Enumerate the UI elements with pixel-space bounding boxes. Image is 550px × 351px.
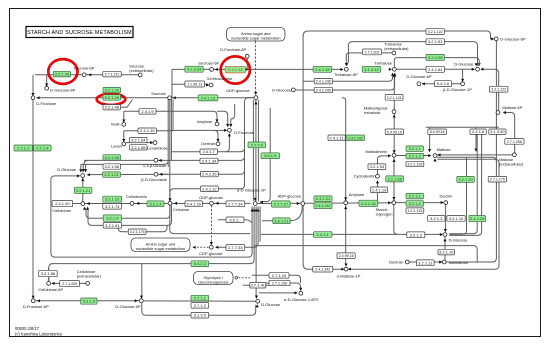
arrow into trehalose-6P xyxy=(340,68,343,71)
svg-text:D-Glucose-6P: D-Glucose-6P xyxy=(406,74,431,79)
arrow into dextrin xyxy=(441,201,444,204)
svg-text:2.4.1.11: 2.4.1.11 xyxy=(330,135,345,140)
enzyme 2.4.1.10 xyxy=(138,128,157,133)
enzyme 3.2.1.3 (dextrin) xyxy=(428,216,446,222)
enzyme 3.1.3.12 xyxy=(362,66,381,72)
wire 2.4.1.4 row xyxy=(172,111,217,121)
wire D-glucose2 to isomaltose xyxy=(444,237,446,260)
map link Amino sugar metabolism (top) xyxy=(227,28,286,42)
svg-text:2.4.1.64: 2.4.1.64 xyxy=(428,67,443,72)
arrow into D-glucose left xyxy=(87,173,90,176)
wire cellulose row y203.4 xyxy=(53,202,251,204)
arrow D-fructose mid a xyxy=(226,124,229,127)
svg-text:D-Glucose: D-Glucose xyxy=(272,87,292,92)
map link Glycolysis Gluconeogenesis xyxy=(194,272,234,285)
enzyme 1.1.99.13 xyxy=(185,81,205,87)
svg-text:3.2.1.64: 3.2.1.64 xyxy=(131,138,146,143)
wire cellobiose-6P up xyxy=(48,267,50,281)
svg-text:3.6.1.9: 3.6.1.9 xyxy=(264,153,277,158)
svg-text:2.4.1.245: 2.4.1.245 xyxy=(316,88,331,92)
enzyme 2.7.1.2 xyxy=(191,303,209,309)
arrow down into G1P xyxy=(254,198,257,201)
arrow into sucrose-6P right xyxy=(215,68,218,71)
wire y127.2 horizontal xyxy=(426,126,499,128)
enzyme 2.4.1.20 (cellobiose) xyxy=(52,201,73,207)
arrow into D-glucose bottom xyxy=(255,296,258,299)
svg-text:2.4.1.15: 2.4.1.15 xyxy=(315,67,330,72)
svg-text:3.2.1.122: 3.2.1.122 xyxy=(428,30,443,34)
enzyme 3.2.1.74 xyxy=(103,204,122,210)
svg-text:2.7.7.34: 2.7.7.34 xyxy=(228,201,243,206)
enzyme 2.4.1.9 xyxy=(139,109,156,114)
node cellodextrin xyxy=(130,202,134,206)
node beta-D-glucoside xyxy=(154,172,158,176)
svg-text:3.6.1.-: 3.6.1.- xyxy=(229,217,241,222)
enzyme 3.2.1.65 xyxy=(130,145,147,150)
arrow into trehalose bottom b xyxy=(393,73,396,76)
enzyme 2.7.1.175 xyxy=(488,176,506,182)
node D-glucose-6P right xyxy=(494,37,498,41)
arrow into 1,3-b-glucan xyxy=(159,159,162,162)
wire 2.7.7.33 row xyxy=(216,246,250,248)
svg-text:β-D-Glucose-1P: β-D-Glucose-1P xyxy=(443,87,472,92)
svg-text:Isomaltose: Isomaltose xyxy=(449,260,469,265)
svg-text:2.7.7.27: 2.7.7.27 xyxy=(274,201,289,206)
enzyme 5.4.99.15 xyxy=(385,129,403,135)
enzyme 2.7.7.34 xyxy=(226,201,245,207)
svg-text:5.4.99.16: 5.4.99.16 xyxy=(430,130,445,134)
svg-text:D-Glucose: D-Glucose xyxy=(449,238,469,243)
arrow into D-glucose right c xyxy=(472,68,475,71)
svg-text:α-Maltose-1P: α-Maltose-1P xyxy=(337,273,361,278)
arrow into D-fructose-6P xyxy=(32,296,35,299)
enzyme 2.4.1.35 xyxy=(201,171,219,176)
wire x476 drop xyxy=(475,127,477,151)
wire stub dglc a xyxy=(80,164,82,171)
arrow up into UDP-glucose xyxy=(254,101,257,104)
wire D-fructose-6P stub xyxy=(246,58,248,69)
wire sucrose bundle a xyxy=(167,99,169,167)
wire 2.7.1.10 row xyxy=(252,275,301,283)
svg-text:3.2.1.3: 3.2.1.3 xyxy=(410,232,423,237)
svg-text:Cellulose: Cellulose xyxy=(173,207,190,212)
arrow into cyclodextrin xyxy=(376,180,379,183)
arrow up into amylose xyxy=(344,206,347,209)
node amylose main xyxy=(344,201,348,205)
svg-text:3.2.1.21: 3.2.1.21 xyxy=(76,188,91,193)
arrow into starch xyxy=(388,201,391,204)
svg-text:3.2.1.176: 3.2.1.176 xyxy=(130,230,145,234)
svg-text:α-D-Glucose-1,6P2: α-D-Glucose-1,6P2 xyxy=(284,297,319,302)
wire cellulose lower path2 xyxy=(88,205,172,225)
arrow into maltodextrin from cyclodextrin xyxy=(388,154,391,157)
svg-text:3.2.1.58: 3.2.1.58 xyxy=(105,164,120,169)
enzyme 3.2.1.48 xyxy=(103,105,121,110)
arrow into sucrose xyxy=(173,96,176,99)
wire 2.4.1.245 row y90 xyxy=(296,73,395,90)
svg-text:2.4.1.34: 2.4.1.34 xyxy=(202,158,217,163)
arrow into maltose xyxy=(428,154,431,157)
wire 3.6.1.21 curve xyxy=(262,206,302,221)
wire 2.7.1.41 row xyxy=(243,284,270,286)
enzyme 2.4.1.18 xyxy=(359,200,378,206)
svg-text:2.4.1.9: 2.4.1.9 xyxy=(141,109,154,114)
svg-text:3.2.1.48: 3.2.1.48 xyxy=(105,105,120,110)
node cellobiose xyxy=(81,202,85,206)
enzyme 3.2.1.21 (glucan) xyxy=(103,172,121,177)
wire stub to b-D-glucose-1P xyxy=(462,69,464,81)
svg-text:3.2.1.65: 3.2.1.65 xyxy=(131,145,146,150)
wire into D-fructose mid a xyxy=(217,111,228,126)
wire 2.4.1.246 row y81.2 xyxy=(303,73,393,81)
arrow out of 2.4.1.14 right xyxy=(245,68,248,71)
wire amylose column x345.7 xyxy=(342,98,346,265)
svg-text:D-Glucose-6P: D-Glucose-6P xyxy=(115,304,140,309)
arrow bundle d up xyxy=(257,208,260,211)
svg-text:3.2.1.1: 3.2.1.1 xyxy=(409,194,422,199)
wire 2.4.1.25 column xyxy=(450,134,478,234)
enzyme 2.7.1.10 xyxy=(269,273,289,278)
arrow into D-glucose node2 xyxy=(444,229,447,232)
svg-text:3.2.1.26: 3.2.1.26 xyxy=(105,95,120,100)
wire 2.7.1.106 row xyxy=(252,283,301,289)
arrow into D-glucose from right xyxy=(480,68,483,71)
node dextrin xyxy=(444,201,448,205)
wire maltodextrin-starch column xyxy=(393,158,395,201)
enzyme 3.2.1.122 (maltose-6P) xyxy=(489,86,508,92)
wire cyclodextrin to maltodextrin via 3.2.1.54 xyxy=(378,156,391,175)
wire G1P bundle a xyxy=(51,176,252,257)
wire stub dglc c xyxy=(85,164,87,171)
svg-text:2.7.7.9: 2.7.7.9 xyxy=(251,142,264,147)
enzyme 3.2.1.10 (dextrin) xyxy=(447,216,465,222)
svg-text:α-D-Glucose-1P: α-D-Glucose-1P xyxy=(237,188,266,193)
enzyme 2.7.1.1 (fructose) xyxy=(14,145,33,151)
wire x496.4 long xyxy=(446,41,496,262)
wire PTS trehalose xyxy=(346,53,392,65)
svg-text:β-D-Glucoside: β-D-Glucoside xyxy=(141,177,167,182)
node alpha-D-glucose-1,6P2 xyxy=(299,291,303,295)
enzyme 3.1.3.24 xyxy=(185,66,203,72)
wire 1,3-b-glucan row y160.4 xyxy=(84,156,245,160)
svg-text:D-Fructose: D-Fructose xyxy=(234,130,255,135)
node trehalose xyxy=(392,67,396,71)
wire 3.6.1.9 column xyxy=(260,108,270,202)
svg-text:2.7.1.208: 2.7.1.208 xyxy=(507,140,522,144)
enzyme 3.2.1.11 (dextran) xyxy=(416,260,434,266)
wire corner to D-fructose xyxy=(32,75,34,96)
wire maltodextrin-maltose row xyxy=(396,155,431,157)
node D-fructose xyxy=(31,96,35,100)
svg-text:3.2.1.4: 3.2.1.4 xyxy=(106,216,119,221)
svg-text:3.2.1.4: 3.2.1.4 xyxy=(149,201,162,206)
enzyme 3.2.1.3 (starch) xyxy=(407,232,425,238)
svg-text:2.4.1.35: 2.4.1.35 xyxy=(202,172,217,177)
svg-text:D-Fructose: D-Fructose xyxy=(36,101,57,106)
wire dextrin down xyxy=(445,204,447,231)
wire G1P bundle e xyxy=(259,206,261,241)
node isomaltose xyxy=(442,260,446,264)
wire 3.2.1.20 column xyxy=(449,157,467,234)
arrow into ADP-glucose xyxy=(297,202,300,205)
enzyme 3.2.1.2 (maltose) xyxy=(406,153,424,159)
arrow up into D-glucose bottom xyxy=(256,304,259,307)
svg-text:3.2.1.21: 3.2.1.21 xyxy=(105,197,120,202)
node sucrose-6P left xyxy=(82,73,86,77)
wire sucrose bundle stub x172 xyxy=(171,69,173,97)
enzyme 2.4.1.14 highlighted xyxy=(225,66,245,73)
node maltodextrin xyxy=(392,153,396,157)
enzyme 2.4.1.64 xyxy=(426,66,445,72)
node maltose xyxy=(433,154,437,158)
node beta-D-glucose-1P xyxy=(461,82,465,86)
svg-text:3.2.1.39: 3.2.1.39 xyxy=(105,155,120,160)
wire maltose triple a xyxy=(437,154,512,156)
enzyme 2.4.1.15 xyxy=(313,66,332,72)
wire x429.6 drop xyxy=(429,127,431,151)
svg-text:Levan: Levan xyxy=(111,144,122,149)
enzyme 3.2.1.20 (sucrose) xyxy=(103,87,121,92)
svg-text:2.7.1.201: 2.7.1.201 xyxy=(365,50,380,54)
svg-text:2.4.1.242: 2.4.1.242 xyxy=(316,204,331,208)
arrow into D-glucose right a xyxy=(475,63,478,66)
enzyme 3.2.1.58 xyxy=(103,164,121,169)
node trehalose-6P xyxy=(344,67,348,71)
svg-text:D-Fructose-6P: D-Fructose-6P xyxy=(23,304,49,309)
arrow into cellodextrin xyxy=(136,202,139,205)
svg-text:2.4.1.242: 2.4.1.242 xyxy=(348,136,363,140)
svg-text:CDP-glucose: CDP-glucose xyxy=(199,251,223,256)
arrow into CDP-glucose xyxy=(210,242,213,245)
dashed aminosugar2 to CDP xyxy=(194,246,209,248)
arrow into CDP from right xyxy=(215,246,218,249)
wire G6P-DGlc row xyxy=(144,300,256,302)
svg-text:2.7.1.41: 2.7.1.41 xyxy=(251,283,266,288)
wire dextran2-isomaltose row xyxy=(409,261,442,263)
svg-text:Levanbiose: Levanbiose xyxy=(147,146,168,151)
wire sucrose-6P row y74.8 xyxy=(35,74,138,76)
arrow into trehalose-6P top xyxy=(345,63,348,66)
red highlight ellipse 2 (3.2.1.26 stack) xyxy=(97,94,126,105)
enzyme 5.4.2.2 xyxy=(191,261,209,267)
svg-text:2.7.1.10: 2.7.1.10 xyxy=(272,273,287,278)
wire G16P2 row xyxy=(259,292,297,294)
wire 2.4.1.12 upturn xyxy=(218,185,245,189)
node ADP-glucose xyxy=(301,202,305,206)
svg-text:3.2.1.54: 3.2.1.54 xyxy=(370,164,385,169)
svg-text:2.7.7.33: 2.7.7.33 xyxy=(228,245,243,250)
enzyme 3.2.1.1 (dextrin) xyxy=(406,193,424,199)
arrow into G6P bottom xyxy=(135,299,138,302)
enzyme 3.2.1.39 xyxy=(103,155,121,160)
arrow into G6P from top xyxy=(140,296,143,299)
arrow into b-D-glucoside xyxy=(159,173,162,176)
svg-text:Maltose: Maltose xyxy=(437,147,452,152)
wire outer loop top y31 xyxy=(303,31,493,39)
enzyme 3.2.1.93 xyxy=(426,39,445,45)
arrow into D-glucose2 from left xyxy=(440,233,443,236)
svg-text:3.2.1.141: 3.2.1.141 xyxy=(387,96,402,100)
arrow D-fructose mid b xyxy=(229,124,232,127)
wire G6P drop x141.8 xyxy=(141,264,143,298)
arrow into aminosugar2 xyxy=(193,246,196,249)
wire starch node drop xyxy=(394,205,398,235)
svg-text:2.7.1.1: 2.7.1.1 xyxy=(194,296,207,301)
enzyme 3.2.1.54 xyxy=(368,164,386,170)
arrow down into amylose xyxy=(344,197,347,200)
svg-text:2.7.1.4: 2.7.1.4 xyxy=(36,145,49,150)
svg-text:Maltose-6P: Maltose-6P xyxy=(502,105,523,110)
node sucrose xyxy=(168,96,172,100)
enzyme 2.7.1.4 xyxy=(34,145,52,151)
wire stub dglc b xyxy=(82,164,84,171)
enzyme 2.4.1.13 xyxy=(198,95,218,101)
arrow up into cellobiose a xyxy=(83,207,86,210)
wire starch-dextrin row xyxy=(396,202,443,204)
enzyme 2.4.1.242 (amylose) xyxy=(346,135,364,141)
node UDP-glucose xyxy=(254,96,258,100)
wire sucrose bundle b xyxy=(170,99,250,233)
node D-fructose-6P top xyxy=(245,54,249,58)
enzyme 3.2.1.64 xyxy=(130,137,147,142)
svg-text:Amylose: Amylose xyxy=(349,192,365,197)
enzyme 3.6.1.21 xyxy=(273,218,290,224)
svg-text:Sucrose-6P: Sucrose-6P xyxy=(74,66,95,71)
svg-text:2.4.1.19: 2.4.1.19 xyxy=(372,187,387,192)
svg-text:Cellodextrin: Cellodextrin xyxy=(126,194,147,199)
map link Amino sugar metabolism (bottom) xyxy=(131,238,190,252)
arrow up into D-fructose mid xyxy=(228,133,231,136)
red highlight circle 3 (2.4.1.14) xyxy=(221,56,250,83)
wire UDP bundle b xyxy=(255,100,257,202)
svg-text:5.4.2.2: 5.4.2.2 xyxy=(194,261,207,266)
arrow into D-fructose top xyxy=(31,93,34,96)
enzyme 3.2.1.176 xyxy=(128,229,146,234)
arrow up into D-glucose2 xyxy=(443,238,446,241)
arrow into cellulose right xyxy=(174,202,177,205)
svg-text:3.2.1.91: 3.2.1.91 xyxy=(105,223,120,228)
wire sucrose bundle c xyxy=(170,99,172,160)
enzyme 3.2.1.133 (maltose) xyxy=(406,161,424,166)
wire stub to D-glucose-6P left xyxy=(46,75,48,86)
wire maltose-6P PTS loop xyxy=(504,113,515,153)
svg-text:D-Fructose-6P: D-Fructose-6P xyxy=(220,47,246,52)
enzyme 2.7.1.205 xyxy=(60,281,80,287)
svg-text:Sucrose-6P: Sucrose-6P xyxy=(198,61,219,66)
svg-text:GDP-glucose: GDP-glucose xyxy=(199,195,224,200)
enzyme 2.4.1.246 xyxy=(314,79,332,84)
arrow into D-fructose right side xyxy=(36,96,39,99)
node GDP-glucose xyxy=(210,201,214,205)
arrow into G1P from right xyxy=(260,201,263,204)
wire 2.4.1.7 to D-fructose branch xyxy=(225,134,229,152)
wire 3.2.1.176 path xyxy=(118,225,167,231)
enzyme 3.1.3.90 xyxy=(489,129,506,134)
node D-fructose-6P bottom xyxy=(31,299,35,303)
svg-text:2.4.1.21: 2.4.1.21 xyxy=(316,196,331,201)
svg-text:3.2.1.20: 3.2.1.20 xyxy=(458,177,473,182)
svg-text:UDP-glucose: UDP-glucose xyxy=(226,88,250,93)
node inulin xyxy=(122,123,126,127)
enzyme 3.2.1.10 (isomaltose) xyxy=(438,249,455,255)
arrow up into maltodextrin xyxy=(392,159,395,162)
wire UDP bundle a xyxy=(252,100,254,201)
svg-text:5.4.2.6: 5.4.2.6 xyxy=(437,81,450,86)
enzyme 2.7.1.211 xyxy=(103,71,121,77)
svg-text:3.2.1.68: 3.2.1.68 xyxy=(387,176,402,181)
node maltose extracellular xyxy=(513,153,517,157)
svg-text:2.4.1.8: 2.4.1.8 xyxy=(472,129,485,134)
title box xyxy=(26,27,133,38)
node sucrose extracellular xyxy=(138,73,142,77)
svg-text:3.2.1.2: 3.2.1.2 xyxy=(409,154,422,159)
arrow into amylose small xyxy=(215,119,218,122)
enzyme 2.4.1.11 xyxy=(328,135,345,141)
wire 2.4.1.1 row xyxy=(261,233,443,235)
node alpha-D-glucose-1P xyxy=(253,202,257,206)
wire trehalase row y57.6 xyxy=(394,58,475,67)
wire 2.4.1.5 row xyxy=(172,130,226,141)
node alpha-maltose-1P xyxy=(344,267,348,271)
node maltose-6P xyxy=(496,111,500,115)
wire cellulose lower path1 xyxy=(86,205,170,218)
svg-text:Maltodextrin: Maltodextrin xyxy=(365,149,387,154)
enzyme 2.4.1.8 xyxy=(470,129,486,134)
svg-text:STARCH AND SUCROSE METABOLISM: STARCH AND SUCROSE METABOLISM xyxy=(27,30,132,36)
enzyme 2.4.1.25 (dextrin) xyxy=(469,216,486,222)
arrow into maltose-6P xyxy=(503,111,506,114)
svg-text:3.2.1.133: 3.2.1.133 xyxy=(407,162,422,166)
svg-text:2.4.1.1: 2.4.1.1 xyxy=(317,232,330,237)
enzyme 2.7.1.1 (glucose) xyxy=(191,295,209,301)
enzyme 2.4.99.16 xyxy=(337,253,355,259)
arrow up into D-glucose xyxy=(81,178,84,181)
svg-text:3.2.1.74: 3.2.1.74 xyxy=(105,204,120,209)
enzyme 2.4.1.21 xyxy=(314,196,332,202)
wire maltose triple c xyxy=(348,159,499,269)
node dextran2 xyxy=(405,260,409,264)
arrow into trehalose bottom a xyxy=(391,73,394,76)
svg-text:2.4.99.16: 2.4.99.16 xyxy=(339,254,354,258)
svg-text:2.4.1.12: 2.4.1.12 xyxy=(202,186,217,191)
arrow bundle c up xyxy=(255,208,258,211)
enzyme 3.2.1.21 (D-glucose) xyxy=(74,187,92,193)
enzyme 5.4.2.6 xyxy=(434,81,451,87)
svg-text:2.7.1.175: 2.7.1.175 xyxy=(490,178,505,182)
svg-text:3-Ketosucrose: 3-Ketosucrose xyxy=(207,76,234,81)
node cellobiose-6P xyxy=(47,282,51,286)
node levan xyxy=(122,142,126,146)
wire maltose triple b xyxy=(437,157,496,161)
wire sucrose bundle d xyxy=(172,99,174,130)
svg-text:3.2.1.11: 3.2.1.11 xyxy=(418,260,433,265)
svg-text:Dextran: Dextran xyxy=(201,141,215,146)
dashed GDP to CDP xyxy=(211,205,213,244)
svg-text:3.2.1.3: 3.2.1.3 xyxy=(430,216,443,221)
enzyme 2.7.1.208 xyxy=(505,139,524,145)
arrow into maltose bundle xyxy=(474,149,477,152)
node starch glycogen xyxy=(392,201,396,205)
svg-text:Trehalose: Trehalose xyxy=(374,60,392,65)
node cyclodextrin xyxy=(376,174,380,178)
enzyme 3.2.1.21 (cellodextrin) xyxy=(103,196,122,202)
node dextran small xyxy=(216,142,220,146)
enzyme 2.7.7.9 xyxy=(248,142,266,148)
arrow into D-glucose-6P right xyxy=(491,37,494,40)
arrow into G16P2 left xyxy=(295,291,298,294)
wire inulin row y111.2 xyxy=(124,111,173,122)
enzyme 3.2.1.20 (maltose) xyxy=(457,176,475,182)
